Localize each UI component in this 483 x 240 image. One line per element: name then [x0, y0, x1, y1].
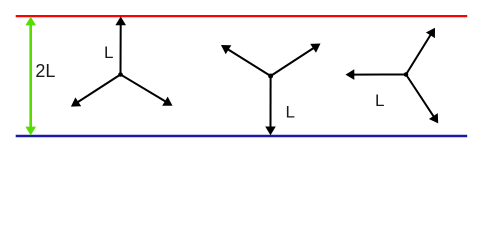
- top wall (red line): [16, 15, 468, 17]
- spinner 3 center dot: [404, 72, 409, 77]
- spinner 3 arm left: [346, 69, 407, 80]
- spinner 2 center dot: [268, 74, 273, 79]
- spinner 3 arm down-right: [406, 75, 438, 124]
- spinner 1 center dot: [118, 72, 123, 77]
- spinner 1 arm down-right: [121, 75, 173, 106]
- spinner 2 arm up-left: [221, 45, 271, 76]
- spinner 1 arm down-left: [71, 75, 121, 107]
- spinner 2 arm down: [265, 76, 276, 135]
- spinner 2 arm up-right: [271, 44, 321, 77]
- svg-text:L: L: [375, 91, 384, 110]
- spinner 3 arm up-right: [406, 28, 435, 75]
- svg-text:L: L: [104, 43, 113, 62]
- spinner 1 arm up: [115, 17, 126, 75]
- bottom wall (blue line): [16, 135, 468, 137]
- svg-text:L: L: [286, 103, 295, 122]
- dimension arrow 2L (green double-headed): [25, 17, 36, 136]
- svg-text:2L: 2L: [35, 61, 55, 81]
